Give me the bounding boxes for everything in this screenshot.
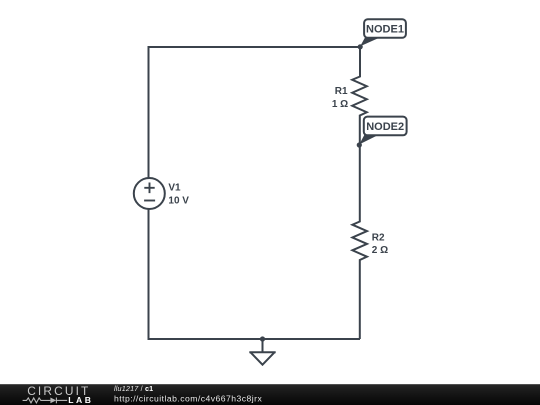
svg-text:R2: R2 — [372, 232, 385, 243]
svg-text:1 Ω: 1 Ω — [332, 99, 348, 110]
svg-text:V1: V1 — [168, 183, 181, 194]
svg-text:R1: R1 — [335, 86, 348, 97]
svg-text:2 Ω: 2 Ω — [372, 245, 388, 256]
svg-text:NODE2: NODE2 — [366, 121, 404, 133]
svg-text:NODE1: NODE1 — [366, 24, 404, 36]
svg-text:http://circuitlab.com/c4v667h3: http://circuitlab.com/c4v667h3c8jrx — [114, 393, 263, 403]
svg-text:llu1217 / c1: llu1217 / c1 — [114, 384, 153, 393]
svg-text:LAB: LAB — [68, 395, 93, 405]
svg-text:10 V: 10 V — [168, 195, 189, 206]
